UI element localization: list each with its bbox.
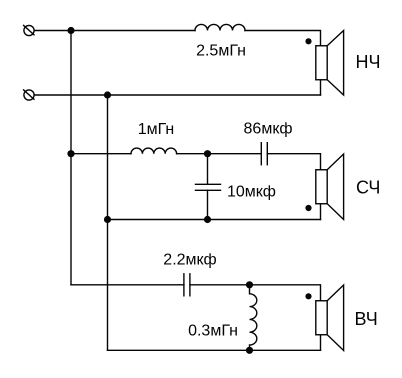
wire: LF speaker vertical lower segment bbox=[320, 80, 322, 96]
svg-text:1мГн: 1мГн bbox=[138, 121, 175, 138]
capacitor C2 10uF plates bbox=[196, 183, 221, 185]
wire: V1 corner to capacitor C3 bbox=[71, 284, 184, 286]
capacitor C3 2.2uF plates bbox=[183, 274, 185, 296]
svg-text:НЧ: НЧ bbox=[356, 52, 381, 72]
svg-text:2.2мкф: 2.2мкф bbox=[163, 252, 216, 269]
wire: MF speaker vertical lower segment bbox=[320, 204, 322, 220]
inductor L2 1mH bbox=[131, 148, 177, 154]
wire: XS2 to LF speaker bottom bbox=[34, 94, 320, 96]
wire: node C to inductor L2 bbox=[71, 153, 131, 155]
speaker LF (НЧ) frame rect bbox=[316, 46, 327, 80]
capacitor C2 10uF vertical leg lower bbox=[207, 190, 209, 219]
node F junction dot (C2 bottom) bbox=[204, 216, 211, 223]
input terminal XS1 (plus) bbox=[24, 25, 34, 35]
wire: vertical bus V2 from node B down bbox=[107, 95, 109, 350]
svg-text:СЧ: СЧ bbox=[356, 178, 380, 198]
svg-text:86мкф: 86мкф bbox=[244, 121, 293, 138]
wire: node E to MF speaker bottom bbox=[108, 219, 321, 221]
svg-text:0.3мГн: 0.3мГн bbox=[188, 323, 238, 340]
wire: node G to HF speaker top bbox=[250, 285, 321, 301]
node E junction dot bbox=[104, 216, 111, 223]
speaker MF (СЧ) frame rect bbox=[316, 170, 327, 204]
wire: vertical bus V1 from node A down bbox=[70, 31, 72, 285]
inductor L3 0.3mH (vertical) bbox=[250, 285, 257, 351]
svg-text:ВЧ: ВЧ bbox=[355, 309, 378, 329]
speaker LF polarity dot bbox=[305, 38, 311, 44]
node A junction dot bbox=[67, 27, 74, 34]
node B junction dot bbox=[104, 91, 111, 98]
wire: XS1 to node A bbox=[34, 30, 71, 32]
input terminal XS2 (minus) bbox=[24, 90, 34, 100]
speaker HF (ВЧ) frame rect bbox=[316, 301, 327, 335]
wire: C1 to MF speaker top bbox=[267, 154, 320, 170]
wire: L1 to LF speaker top bbox=[245, 31, 321, 47]
speaker HF cone bbox=[327, 285, 343, 351]
speaker LF cone bbox=[327, 31, 343, 96]
speaker MF cone bbox=[327, 154, 343, 220]
node D junction dot bbox=[204, 150, 211, 157]
wire: V2 corner to HF speaker bottom bbox=[108, 349, 321, 351]
node G junction dot bbox=[246, 281, 253, 288]
inductor L1 2.5mH bbox=[195, 24, 245, 30]
wire: node A to inductor L1 bbox=[71, 30, 195, 32]
wire: HF speaker vertical lower segment bbox=[320, 335, 322, 351]
svg-text:10мкф: 10мкф bbox=[227, 184, 276, 201]
svg-text:2.5мГн: 2.5мГн bbox=[196, 43, 246, 60]
wire: C3 to node G bbox=[190, 284, 250, 286]
wire: L2 to node D bbox=[177, 153, 208, 155]
wire: node D to capacitor C1 bbox=[208, 153, 262, 155]
capacitor C1 86uF plates bbox=[260, 143, 262, 165]
speaker HF polarity dot bbox=[305, 293, 311, 299]
speaker MF polarity dot bbox=[305, 205, 311, 211]
node C junction dot bbox=[67, 150, 74, 157]
capacitor C2 10uF vertical leg upper bbox=[207, 154, 209, 185]
node H junction dot (L3 bottom) bbox=[246, 347, 253, 354]
